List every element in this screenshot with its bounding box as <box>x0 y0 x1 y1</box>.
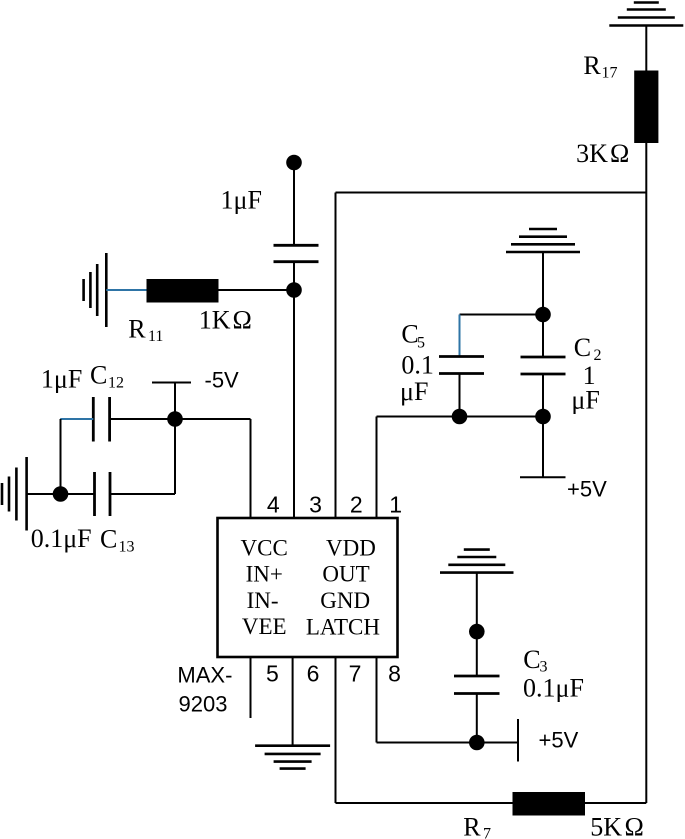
svg-text:12: 12 <box>108 375 124 392</box>
svg-text:13: 13 <box>119 539 135 556</box>
svg-text:9203: 9203 <box>179 692 228 717</box>
svg-text:3K: 3K <box>576 139 608 168</box>
svg-text:+5V: +5V <box>567 477 607 502</box>
svg-text:1: 1 <box>389 492 402 518</box>
svg-text:GND: GND <box>320 588 370 613</box>
svg-text:17: 17 <box>602 65 618 82</box>
svg-text:R: R <box>463 813 481 839</box>
svg-text:1μF: 1μF <box>221 186 262 215</box>
svg-text:2: 2 <box>350 492 363 518</box>
svg-text:0.1μF: 0.1μF <box>31 524 92 553</box>
svg-text:μF: μF <box>571 386 599 415</box>
svg-text:R: R <box>583 51 601 80</box>
svg-text:1K: 1K <box>199 306 231 335</box>
svg-text:+5V: +5V <box>539 728 579 753</box>
svg-text:Ω: Ω <box>625 813 644 839</box>
svg-text:IN-: IN- <box>247 588 279 613</box>
svg-text:IN+: IN+ <box>246 562 283 587</box>
svg-text:7: 7 <box>483 826 491 839</box>
svg-text:6: 6 <box>307 661 320 687</box>
svg-text:5: 5 <box>417 334 425 351</box>
svg-text:11: 11 <box>148 328 163 345</box>
svg-text:0.1: 0.1 <box>401 350 434 379</box>
svg-text:R: R <box>128 315 146 344</box>
svg-text:C: C <box>523 645 540 674</box>
svg-text:8: 8 <box>388 661 401 687</box>
svg-text:0.1μF: 0.1μF <box>523 674 584 703</box>
svg-text:-5V: -5V <box>205 367 240 392</box>
svg-text:MAX-: MAX- <box>177 663 232 688</box>
svg-text:4: 4 <box>267 492 280 518</box>
svg-text:7: 7 <box>349 661 362 687</box>
svg-text:5K: 5K <box>590 813 622 839</box>
svg-text:5: 5 <box>266 661 279 687</box>
svg-text:OUT: OUT <box>322 562 369 587</box>
svg-text:C: C <box>100 525 117 554</box>
svg-text:C: C <box>574 333 591 362</box>
svg-text:3: 3 <box>309 492 322 518</box>
svg-text:VCC: VCC <box>241 536 288 561</box>
svg-text:μF: μF <box>400 377 428 406</box>
svg-text:Ω: Ω <box>233 306 252 335</box>
svg-text:Ω: Ω <box>610 139 629 168</box>
svg-text:1μF: 1μF <box>41 365 82 394</box>
svg-text:VEE: VEE <box>242 614 287 639</box>
svg-text:VDD: VDD <box>326 536 376 561</box>
svg-text:LATCH: LATCH <box>306 615 380 640</box>
svg-text:C: C <box>90 361 107 390</box>
